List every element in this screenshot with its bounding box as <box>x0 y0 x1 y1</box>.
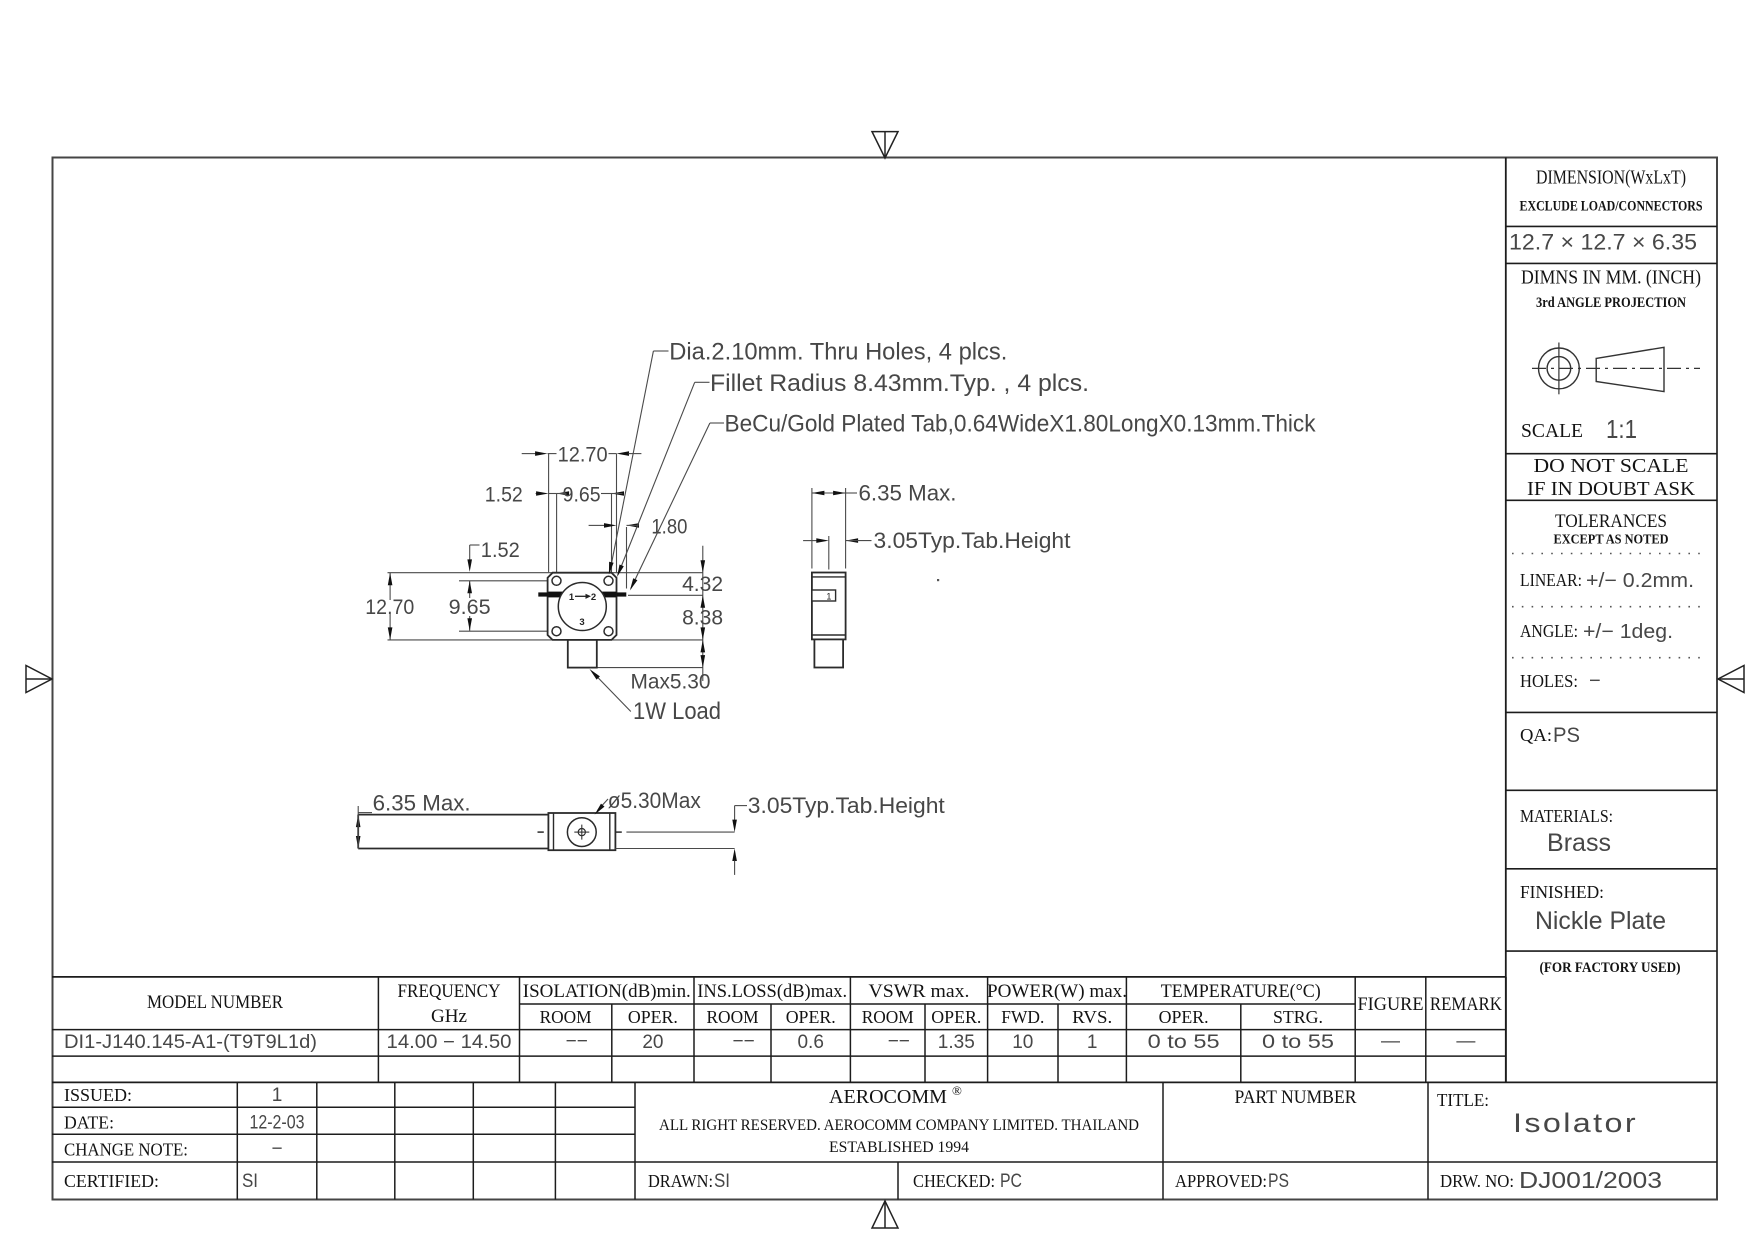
panel: FINISHED row <box>1520 882 1666 935</box>
svg-text:—: — <box>1381 1031 1400 1052</box>
svg-text:DIMENSION(WxLxT): DIMENSION(WxLxT) <box>1536 167 1686 189</box>
svg-text:PS: PS <box>1553 724 1580 747</box>
svg-text:®: ® <box>952 1083 962 1098</box>
svg-text:−: − <box>271 1139 282 1160</box>
svg-text:1: 1 <box>1087 1032 1098 1053</box>
panel: DO NOT SCALE note <box>1527 455 1696 500</box>
top view: center circle <box>558 583 606 631</box>
svg-text:9.65: 9.65 <box>449 596 491 619</box>
svg-text:DI1-J140.145-A1-(T9T9L1d): DI1-J140.145-A1-(T9T9L1d) <box>64 1032 317 1053</box>
top view: BeCu tab strip (black) <box>538 592 626 598</box>
svg-text:9.65: 9.65 <box>563 484 601 507</box>
svg-text:12.70: 12.70 <box>558 444 608 467</box>
panel: TOLERANCES block <box>1512 511 1708 692</box>
svg-text:0 to 55: 0 to 55 <box>1148 1032 1220 1053</box>
bottom view: tab strip bar <box>358 815 615 849</box>
svg-text:DIMNS IN MM. (INCH): DIMNS IN MM. (INCH) <box>1521 267 1701 289</box>
svg-text:FINISHED:: FINISHED: <box>1520 882 1604 902</box>
svg-text:REMARK: REMARK <box>1430 994 1502 1015</box>
bottom view: load circle <box>567 818 596 847</box>
svg-text:−−: −− <box>566 1031 588 1052</box>
svg-text:RVS.: RVS. <box>1072 1007 1112 1027</box>
panel: DIMNS IN MM header <box>1521 267 1701 312</box>
svg-text:QA:: QA: <box>1520 725 1552 745</box>
svg-text:−−: −− <box>733 1031 755 1052</box>
svg-text:12-2-03: 12-2-03 <box>250 1113 305 1134</box>
title cell <box>1437 1090 1638 1138</box>
bottom view: left tab stub <box>538 831 544 833</box>
svg-text:OPER.: OPER. <box>786 1007 836 1027</box>
bottom center alignment triangle <box>872 1201 898 1228</box>
svg-text:Fillet Radius 8.43mm.Typ. ,: Fillet Radius 8.43mm.Typ. , 4 plcs. <box>710 370 1089 397</box>
svg-text:DJ001/2003: DJ001/2003 <box>1519 1167 1662 1193</box>
svg-text:+/− 1deg.: +/− 1deg. <box>1583 621 1673 643</box>
drawing number cell <box>1440 1167 1662 1193</box>
svg-text:ANGLE:: ANGLE: <box>1520 621 1578 641</box>
svg-text:LINEAR:: LINEAR: <box>1520 570 1582 590</box>
top view: mounting holes <box>552 576 613 635</box>
bottom view: center body block <box>548 813 615 850</box>
svg-text:−−: −− <box>888 1031 910 1052</box>
dimension 12.70 horizontal top <box>522 444 642 467</box>
leader note: thru holes <box>609 339 1007 575</box>
dimension 9.65 vertical left <box>449 581 491 631</box>
panel: SCALE row <box>1521 414 1637 444</box>
leader note: 1W load <box>590 669 722 725</box>
bottom view dimension 6.35 Max <box>356 791 471 849</box>
company block <box>659 1083 1139 1156</box>
svg-text:TEMPERATURE(°C): TEMPERATURE(°C) <box>1161 981 1321 1002</box>
3rd angle projection symbol <box>1532 343 1700 395</box>
top view: port labels and flow arrow <box>569 592 596 628</box>
spec table data row <box>64 1031 1475 1053</box>
dimension 1.80 tab length <box>589 515 688 538</box>
dimension 12.70 vertical left <box>365 573 414 640</box>
svg-text:1: 1 <box>569 592 575 603</box>
svg-text:Isolator: Isolator <box>1513 1108 1638 1138</box>
svg-text:1.52: 1.52 <box>481 539 520 562</box>
svg-text:DRAWN:: DRAWN: <box>648 1171 713 1191</box>
svg-text:BeCu/Gold Plated Tab,0.64Wid: BeCu/Gold Plated Tab,0.64WideX1.80LongX0… <box>725 411 1317 438</box>
svg-text:ROOM: ROOM <box>707 1007 759 1027</box>
bottom view dimension 3.05 tab height <box>615 793 944 875</box>
svg-text:0.6: 0.6 <box>797 1032 823 1053</box>
dimension 1.52 top <box>485 484 569 507</box>
svg-text:DO NOT SCALE: DO NOT SCALE <box>1534 455 1689 477</box>
svg-text:−: − <box>1589 670 1601 692</box>
svg-text:1: 1 <box>272 1085 283 1106</box>
svg-text:(FOR FACTORY USED): (FOR FACTORY USED) <box>1540 960 1681 976</box>
svg-text:PC: PC <box>1000 1171 1022 1192</box>
dimension 1.52 vertical leader <box>467 539 519 572</box>
svg-text:4.32: 4.32 <box>682 573 723 596</box>
svg-text:AEROCOMM: AEROCOMM <box>829 1086 947 1108</box>
svg-text:Brass: Brass <box>1547 829 1611 857</box>
svg-text:OPER.: OPER. <box>931 1007 981 1027</box>
side view: body outline <box>812 573 846 640</box>
svg-text:EXCLUDE LOAD/CONNECTORS: EXCLUDE LOAD/CONNECTORS <box>1520 199 1703 215</box>
top view: body square <box>548 573 617 640</box>
bottom view leader diameter 5.30 <box>595 788 701 815</box>
panel: QA row <box>1520 724 1580 747</box>
side view: load block <box>814 639 843 667</box>
dimension 9.65 top <box>563 484 624 507</box>
stray point mark <box>937 579 939 581</box>
svg-text:OPER.: OPER. <box>1159 1007 1209 1027</box>
svg-text:12.70: 12.70 <box>365 596 414 619</box>
svg-text:IF IN DOUBT ASK: IF IN DOUBT ASK <box>1527 478 1696 500</box>
svg-text:14.00 − 14.50: 14.00 − 14.50 <box>387 1032 512 1053</box>
svg-text:1.52: 1.52 <box>485 484 523 507</box>
svg-text:3rd ANGLE PROJECTION: 3rd ANGLE PROJECTION <box>1536 295 1686 311</box>
svg-text:SI: SI <box>242 1171 258 1192</box>
svg-text:APPROVED:: APPROVED: <box>1175 1171 1267 1191</box>
svg-text:1.35: 1.35 <box>938 1032 975 1053</box>
spec table grid <box>52 977 1717 1083</box>
svg-text:ESTABLISHED 1994: ESTABLISHED 1994 <box>829 1139 969 1156</box>
svg-text:8.38: 8.38 <box>682 607 723 630</box>
svg-text:—: — <box>1456 1031 1475 1052</box>
svg-text:Nickle Plate: Nickle Plate <box>1535 907 1666 935</box>
svg-text:SI: SI <box>714 1171 730 1192</box>
svg-text:FIGURE: FIGURE <box>1358 994 1424 1015</box>
side view: tab detail <box>812 590 836 602</box>
svg-text:VSWR max.: VSWR max. <box>869 981 970 1002</box>
svg-text:TOLERANCES: TOLERANCES <box>1555 511 1667 532</box>
panel: MATERIALS row <box>1520 806 1613 857</box>
right info panel dividers <box>1506 158 1717 1083</box>
svg-text:CHANGE NOTE:: CHANGE NOTE: <box>64 1140 188 1160</box>
svg-text:ROOM: ROOM <box>540 1007 592 1027</box>
top view: 1W load block <box>568 640 597 668</box>
side view dimension 3.05 tab height <box>803 528 1070 570</box>
svg-text:20: 20 <box>642 1032 663 1053</box>
top center alignment triangle <box>872 132 898 158</box>
svg-text:FWD.: FWD. <box>1001 1007 1044 1027</box>
svg-text:HOLES:: HOLES: <box>1520 671 1578 691</box>
svg-text:1:1: 1:1 <box>1606 414 1637 444</box>
svg-text:+/− 0.2mm.: +/− 0.2mm. <box>1586 570 1694 592</box>
leader note: fillet radius <box>617 370 1089 577</box>
svg-text:PART NUMBER: PART NUMBER <box>1235 1087 1357 1108</box>
side view dimension 6.35 Max <box>812 481 957 569</box>
left center alignment triangle <box>26 666 52 693</box>
svg-text:12.7 × 12.7 × 6.35: 12.7 × 12.7 × 6.35 <box>1509 230 1697 255</box>
svg-text:GHz: GHz <box>431 1006 467 1027</box>
svg-text:CERTIFIED:: CERTIFIED: <box>64 1171 159 1191</box>
svg-text:3: 3 <box>579 617 584 628</box>
svg-text:3.05Typ.Tab.Height: 3.05Typ.Tab.Height <box>874 528 1071 553</box>
svg-text:MATERIALS:: MATERIALS: <box>1520 806 1613 826</box>
svg-text:OPER.: OPER. <box>628 1007 678 1027</box>
svg-text:INS.LOSS(dB)max.: INS.LOSS(dB)max. <box>697 981 847 1002</box>
svg-text:ø5.30Max: ø5.30Max <box>608 788 701 813</box>
svg-text:SCALE: SCALE <box>1521 420 1583 442</box>
svg-text:0 to 55: 0 to 55 <box>1262 1032 1334 1053</box>
svg-text:POWER(W) max.: POWER(W) max. <box>987 981 1127 1002</box>
svg-text:10: 10 <box>1012 1032 1033 1053</box>
leader note: BeCu tab <box>630 411 1317 591</box>
bottom view: right tab stub <box>616 831 622 833</box>
svg-text:ALL RIGHT RESERVED. AEROCOMM: ALL RIGHT RESERVED. AEROCOMM COMPANY LIM… <box>659 1117 1139 1134</box>
svg-text:DRW. NO:: DRW. NO: <box>1440 1171 1514 1191</box>
svg-text:3.05Typ.Tab.Height: 3.05Typ.Tab.Height <box>748 793 945 818</box>
svg-text:CHECKED:: CHECKED: <box>913 1171 995 1191</box>
svg-text:TITLE:: TITLE: <box>1437 1090 1489 1110</box>
svg-text:Max5.30: Max5.30 <box>631 671 711 694</box>
right center alignment triangle <box>1718 666 1744 693</box>
svg-text:Dia.2.10mm. Thru Holes, 4: Dia.2.10mm. Thru Holes, 4 plcs. <box>669 339 1007 366</box>
svg-text:1W Load: 1W Load <box>633 698 721 725</box>
svg-text:DATE:: DATE: <box>64 1113 114 1133</box>
svg-text:ROOM: ROOM <box>862 1007 914 1027</box>
svg-text:FREQUENCY: FREQUENCY <box>398 981 501 1002</box>
right dimension stack 4.32 / 8.38 / Max5.30 <box>631 546 724 694</box>
svg-text:MODEL NUMBER: MODEL NUMBER <box>147 992 283 1013</box>
svg-text:ISSUED:: ISSUED: <box>64 1085 132 1105</box>
panel: DIMENSION header text <box>1520 167 1703 215</box>
title block grid <box>52 1082 1717 1199</box>
svg-text:EXCEPT AS NOTED: EXCEPT AS NOTED <box>1554 532 1669 547</box>
svg-text:2: 2 <box>591 592 596 603</box>
drawing border frame <box>53 158 1718 1200</box>
spec table headers <box>147 981 1502 1027</box>
svg-text:6.35 Max.: 6.35 Max. <box>373 791 471 816</box>
title block left labels <box>64 1085 305 1192</box>
svg-text:STRG.: STRG. <box>1273 1007 1323 1027</box>
svg-text:ISOLATION(dB)min.: ISOLATION(dB)min. <box>523 981 691 1002</box>
svg-text:PS: PS <box>1268 1171 1289 1192</box>
svg-text:6.35 Max.: 6.35 Max. <box>859 481 957 506</box>
sign-off row <box>648 1171 1289 1192</box>
top view: reference extension lines <box>388 454 703 668</box>
svg-text:1: 1 <box>826 592 831 602</box>
